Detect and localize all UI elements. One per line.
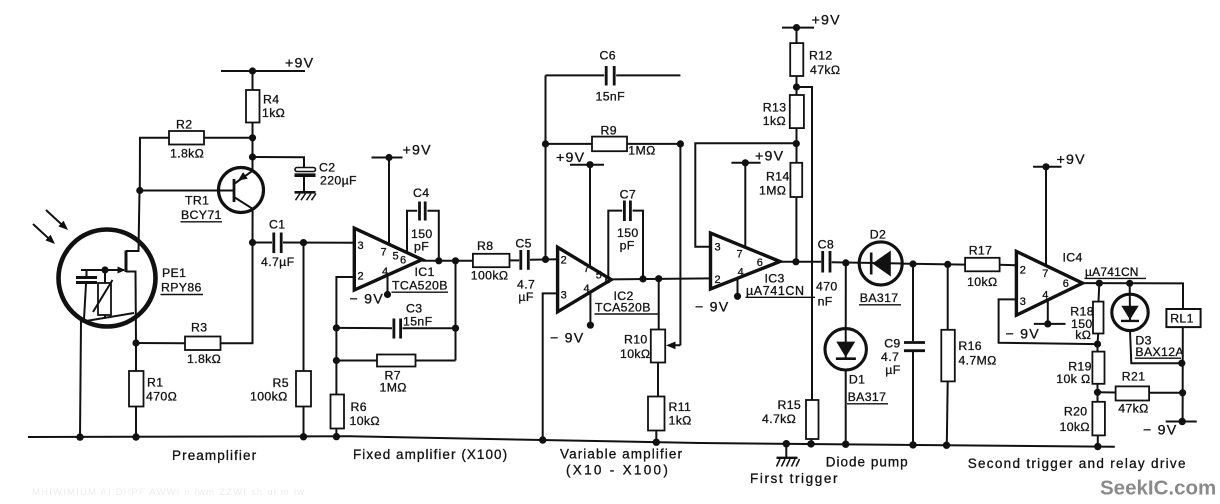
svg-text:Fixed amplifier (X100): Fixed amplifier (X100) bbox=[353, 447, 508, 462]
svg-text:1kΩ: 1kΩ bbox=[763, 114, 786, 128]
node C9 top junction bbox=[909, 260, 916, 267]
R10 wiper arrow bbox=[666, 144, 680, 349]
node D1 branch junction bbox=[842, 259, 849, 266]
svg-text:IC1: IC1 bbox=[415, 265, 435, 279]
+9V supply IC1 bbox=[372, 154, 403, 244]
node rail R5 bbox=[300, 433, 307, 440]
node R12-R13 junction bbox=[793, 83, 800, 90]
potentiometer R10 bbox=[651, 279, 665, 397]
node rail PE1 bbox=[76, 433, 83, 440]
+9V supply IC3 bbox=[731, 159, 760, 247]
svg-text:R9: R9 bbox=[601, 124, 617, 138]
svg-text:3: 3 bbox=[1020, 296, 1026, 308]
capacitor C8 bbox=[823, 251, 903, 273]
wire IC4 output bbox=[1083, 283, 1184, 309]
wire IC4 pin3 feedback loop bbox=[999, 299, 1098, 344]
node pin2-R7 junction bbox=[333, 357, 340, 364]
resistor R17 bbox=[965, 258, 1016, 272]
svg-text:BAX12A: BAX12A bbox=[1135, 345, 1184, 359]
svg-text:R16: R16 bbox=[958, 339, 982, 353]
svg-text:+9V: +9V bbox=[812, 13, 841, 29]
PE1 internal bottom node wire bbox=[80, 313, 134, 322]
svg-text:R11: R11 bbox=[669, 400, 692, 414]
capacitor C5 bbox=[521, 250, 546, 270]
svg-text:C5: C5 bbox=[515, 237, 531, 251]
resistor R7 bbox=[336, 355, 455, 367]
svg-text:2: 2 bbox=[715, 274, 721, 286]
svg-text:TCA520B: TCA520B bbox=[595, 301, 651, 315]
capacitor C3 bbox=[336, 319, 455, 339]
resistor R8 bbox=[473, 254, 519, 267]
resistor R6 bbox=[331, 395, 345, 438]
svg-text:R8: R8 bbox=[477, 239, 493, 253]
svg-text:4: 4 bbox=[1042, 290, 1048, 302]
svg-text:2: 2 bbox=[561, 255, 567, 267]
node rail R11 bbox=[653, 439, 660, 446]
svg-text:100kΩ: 100kΩ bbox=[250, 390, 288, 404]
node R10 top junction bbox=[655, 275, 662, 282]
svg-text:1.8kΩ: 1.8kΩ bbox=[187, 352, 221, 366]
svg-text:R3: R3 bbox=[191, 321, 207, 335]
resistor R5 bbox=[296, 243, 311, 437]
capacitor C9 bbox=[904, 264, 925, 445]
svg-text:3: 3 bbox=[358, 240, 364, 252]
resistor R21 bbox=[1098, 386, 1183, 400]
svg-text:1kΩ: 1kΩ bbox=[669, 414, 692, 428]
svg-text:First trigger: First trigger bbox=[750, 471, 839, 486]
node rail R6 bbox=[333, 433, 340, 440]
PE1 internal channel bar bbox=[125, 251, 128, 273]
svg-text:(X10 - X100): (X10 - X100) bbox=[566, 463, 670, 478]
svg-text:5: 5 bbox=[596, 270, 602, 282]
op-amp IC1 bbox=[354, 228, 422, 290]
photocell PE1 envelope circle bbox=[59, 230, 156, 327]
node R14 output junction bbox=[792, 258, 799, 265]
svg-text:BCY71: BCY71 bbox=[181, 208, 222, 222]
svg-text:TR1: TR1 bbox=[185, 194, 209, 208]
op-amp IC3 bbox=[711, 233, 781, 289]
node rail IC2 pin3 bbox=[539, 436, 546, 443]
transistor TR1 circle bbox=[219, 168, 264, 213]
node rail R16 bbox=[943, 442, 950, 449]
-9V pin4 IC2 bbox=[587, 292, 594, 329]
PE1 drain lead to TR1 base bbox=[126, 191, 140, 252]
svg-text:Variable amplifier: Variable amplifier bbox=[560, 447, 683, 462]
node R18 bottom junction bbox=[1094, 341, 1101, 348]
node R19 bottom junction bbox=[1094, 389, 1101, 396]
svg-text:Second trigger and relay drive: Second trigger and relay drive bbox=[968, 456, 1187, 471]
wire IC1 output bbox=[422, 260, 473, 262]
-9V pin4 IC3 bbox=[734, 278, 741, 300]
svg-text:4: 4 bbox=[584, 283, 590, 295]
resistor R15 bbox=[806, 400, 819, 444]
svg-text:R21: R21 bbox=[1122, 370, 1146, 384]
svg-text:10kΩ: 10kΩ bbox=[350, 414, 380, 428]
svg-text:R15: R15 bbox=[778, 398, 802, 412]
svg-text:100kΩ: 100kΩ bbox=[471, 269, 509, 283]
resistor R14 bbox=[790, 163, 802, 262]
resistor R4 bbox=[246, 71, 260, 157]
node C3 right junction bbox=[452, 325, 459, 332]
TR1 emitter lead with PNP arrow bbox=[234, 157, 253, 184]
svg-text:− 9V: − 9V bbox=[695, 300, 729, 316]
svg-text:3: 3 bbox=[715, 242, 721, 254]
svg-text:C9: C9 bbox=[884, 337, 900, 351]
node TR1 collector-top junction bbox=[249, 153, 256, 160]
svg-text:R20: R20 bbox=[1064, 405, 1088, 419]
svg-text:1.8kΩ: 1.8kΩ bbox=[170, 147, 204, 161]
svg-text:SeekIC.com: SeekIC.com bbox=[1100, 477, 1216, 500]
-9V terminal bottom right bbox=[1166, 418, 1197, 425]
svg-text:10kΩ: 10kΩ bbox=[1060, 420, 1090, 434]
svg-text:µA741CN: µA741CN bbox=[1085, 265, 1139, 279]
diode D1 bbox=[825, 263, 866, 445]
node R3 left junction bbox=[132, 339, 139, 346]
svg-text:2: 2 bbox=[358, 271, 364, 283]
wire pin3 to ground rail bbox=[543, 293, 558, 440]
svg-text:7: 7 bbox=[1042, 268, 1048, 280]
+9V rail top left bbox=[221, 67, 305, 74]
capacitor C2 electrolytic bbox=[253, 157, 316, 192]
light arrow 2 bbox=[33, 224, 55, 244]
svg-text:IC4: IC4 bbox=[1063, 251, 1083, 265]
ground symbol first trigger bbox=[777, 444, 800, 467]
svg-text:47kΩ: 47kΩ bbox=[810, 63, 840, 77]
diode D3 bbox=[1112, 283, 1182, 363]
resistor R12 bbox=[790, 28, 803, 95]
wire feedback right vertical bbox=[455, 261, 457, 361]
PE1 source lead down to R3 node bbox=[126, 272, 136, 344]
svg-text:Preamplifier: Preamplifier bbox=[172, 448, 257, 463]
svg-text:1MΩ: 1MΩ bbox=[628, 144, 655, 158]
svg-text:R2: R2 bbox=[176, 118, 192, 132]
svg-text:R12: R12 bbox=[809, 49, 833, 63]
svg-text:− 9V: − 9V bbox=[1006, 327, 1040, 343]
svg-text:4.7µF: 4.7µF bbox=[261, 255, 295, 269]
wire IC2 output to IC3 bbox=[611, 278, 710, 279]
node C4 output junction bbox=[435, 257, 442, 264]
svg-text:4.7MΩ: 4.7MΩ bbox=[958, 354, 996, 368]
svg-text:C2: C2 bbox=[319, 161, 335, 175]
op-amp IC4 bbox=[1016, 251, 1082, 315]
node R9 right junction bbox=[677, 140, 684, 147]
svg-text:C6: C6 bbox=[600, 49, 616, 63]
resistor R2 bbox=[140, 131, 253, 191]
PE1 internal gate arrow bbox=[105, 267, 126, 274]
svg-text:RL1: RL1 bbox=[1170, 312, 1194, 326]
svg-text:TCA520B: TCA520B bbox=[392, 279, 448, 293]
node D3 top junction bbox=[1126, 280, 1133, 287]
wire TR1 collector down to C1 node bbox=[252, 209, 254, 243]
svg-text:µF: µF bbox=[885, 363, 900, 377]
node C1 left junction bbox=[249, 239, 256, 246]
diode D2 bbox=[859, 242, 965, 285]
svg-text:BA317: BA317 bbox=[860, 291, 899, 305]
resistor R16 bbox=[941, 264, 955, 445]
resistor R11 bbox=[648, 397, 665, 443]
svg-text:R10: R10 bbox=[624, 333, 648, 347]
PE1 internal node junction bbox=[101, 266, 108, 273]
wire bottom common rail bbox=[28, 436, 1115, 447]
svg-text:5: 5 bbox=[393, 251, 399, 263]
svg-text:pF: pF bbox=[620, 239, 635, 253]
node rail D1 bbox=[842, 441, 849, 448]
node pin2-C3 junction bbox=[333, 324, 340, 331]
-9V pin4 IC4 bbox=[1034, 300, 1066, 328]
svg-text:R4: R4 bbox=[263, 93, 279, 107]
PE1 internal top node wire bbox=[81, 269, 124, 271]
svg-text:pF: pF bbox=[414, 240, 429, 254]
wire C5 to pin2 bbox=[546, 258, 558, 260]
TR1 base wire from node bbox=[140, 190, 235, 192]
node C7 output junction bbox=[639, 275, 646, 282]
svg-text:nF: nF bbox=[818, 295, 833, 309]
resistor R19 bbox=[1092, 344, 1104, 392]
svg-text:µF: µF bbox=[518, 290, 533, 304]
svg-text:R17: R17 bbox=[969, 244, 993, 258]
-9V pin4 IC1 bbox=[384, 275, 391, 298]
relay RL1 bbox=[1166, 309, 1200, 422]
svg-text:47kΩ: 47kΩ bbox=[1118, 402, 1148, 416]
svg-text:+9V: +9V bbox=[285, 56, 314, 72]
svg-text:− 9V: − 9V bbox=[1143, 423, 1177, 439]
wire feedback left vertical bbox=[545, 75, 547, 259]
svg-text:µA741CN: µA741CN bbox=[746, 284, 805, 298]
svg-text:+9V: +9V bbox=[755, 149, 784, 165]
node R2-R4 junction bbox=[249, 134, 256, 141]
node rail R1 bbox=[132, 433, 139, 440]
svg-text:220µF: 220µF bbox=[320, 174, 357, 188]
svg-text:D1: D1 bbox=[849, 373, 865, 387]
svg-text:15nF: 15nF bbox=[403, 315, 433, 329]
op-amp IC2 bbox=[558, 247, 612, 311]
svg-text:RPY86: RPY86 bbox=[161, 281, 202, 295]
svg-text:15nF: 15nF bbox=[596, 90, 626, 104]
svg-text:6: 6 bbox=[757, 257, 763, 269]
svg-text:470Ω: 470Ω bbox=[146, 390, 177, 404]
resistor R13 bbox=[790, 95, 804, 163]
PE1 internal photoresistive element bbox=[93, 270, 113, 318]
svg-text:7: 7 bbox=[584, 263, 590, 275]
resistor R9 bbox=[546, 137, 681, 152]
node R5 branch junction bbox=[300, 239, 307, 246]
svg-text:10kΩ: 10kΩ bbox=[620, 347, 650, 361]
svg-text:7: 7 bbox=[381, 247, 387, 259]
svg-text:R13: R13 bbox=[763, 101, 787, 115]
svg-text:R5: R5 bbox=[273, 376, 289, 390]
TR1 collector lead bbox=[234, 197, 253, 209]
svg-text:C3: C3 bbox=[406, 302, 422, 316]
svg-text:6: 6 bbox=[1063, 278, 1069, 290]
svg-text:R14: R14 bbox=[766, 170, 790, 184]
svg-text:7: 7 bbox=[737, 249, 743, 261]
node R9 left junction bbox=[542, 140, 549, 147]
node feedback output junction bbox=[452, 257, 459, 264]
svg-text:10kΩ: 10kΩ bbox=[967, 275, 997, 289]
node rail C9 bbox=[909, 441, 916, 448]
PE1 internal capacitor bbox=[76, 270, 97, 319]
+9V supply top right bbox=[782, 24, 814, 31]
svg-text:3: 3 bbox=[561, 289, 567, 301]
node pin2 input junction bbox=[542, 256, 549, 263]
node R13-R14 junction bbox=[793, 140, 800, 147]
svg-text:PE1: PE1 bbox=[162, 266, 186, 280]
svg-text:4: 4 bbox=[738, 267, 744, 279]
svg-text:BA317: BA317 bbox=[848, 390, 887, 404]
node rail R20 bbox=[1094, 443, 1101, 450]
svg-text:R1: R1 bbox=[147, 376, 163, 390]
light arrow 1 bbox=[46, 210, 68, 230]
node rail ground stub bbox=[783, 440, 790, 447]
svg-text:C4: C4 bbox=[413, 186, 429, 200]
+9V supply IC2 bbox=[570, 161, 604, 267]
svg-text:4.7kΩ: 4.7kΩ bbox=[762, 412, 796, 426]
svg-text:Diode pump: Diode pump bbox=[826, 455, 909, 470]
resistor R3 bbox=[136, 243, 253, 351]
TR1 base bar bbox=[233, 179, 236, 202]
capacitor C1 bbox=[253, 233, 355, 254]
resistor R20 bbox=[1092, 392, 1105, 446]
svg-text:R6: R6 bbox=[351, 400, 367, 414]
svg-text:C1: C1 bbox=[269, 218, 285, 232]
svg-text:4.7: 4.7 bbox=[881, 350, 899, 364]
svg-text:C8: C8 bbox=[818, 238, 834, 252]
svg-text:kΩ: kΩ bbox=[1075, 328, 1091, 342]
svg-text:1MΩ: 1MΩ bbox=[380, 381, 407, 395]
svg-text:470: 470 bbox=[816, 280, 838, 294]
svg-text:10k Ω: 10k Ω bbox=[1056, 372, 1090, 386]
node rail R15 bbox=[807, 440, 814, 447]
+9V supply IC4 bbox=[1033, 163, 1061, 266]
wire R12 node to R15 vertical bbox=[797, 87, 813, 400]
capacitor C4 feedback bbox=[407, 202, 439, 261]
resistor R1 bbox=[129, 343, 144, 437]
node R21 right junction bbox=[1179, 389, 1186, 396]
svg-text:2: 2 bbox=[1020, 265, 1026, 277]
node D3 bottom junction bbox=[1178, 360, 1185, 367]
node R16 top junction bbox=[944, 261, 951, 268]
svg-text:+9V: +9V bbox=[403, 143, 432, 159]
ground below C2 bbox=[295, 192, 317, 200]
svg-text:− 9V: − 9V bbox=[550, 331, 584, 347]
svg-text:MHIWIMIUM AI DIIPF AWWI n l: MHIWIMIUM AI DIIPF AWWI n lwm ZZWI sh ul… bbox=[32, 487, 305, 498]
svg-text:− 9V: − 9V bbox=[350, 292, 384, 308]
svg-text:1MΩ: 1MΩ bbox=[759, 184, 786, 198]
svg-text:1kΩ: 1kΩ bbox=[262, 106, 285, 120]
wire IC3 pin3 loop bbox=[695, 143, 796, 246]
capacitor C6 bbox=[546, 66, 681, 86]
node R18 top junction bbox=[1096, 280, 1103, 287]
PE1 cathode lead down to rail bbox=[80, 321, 81, 437]
resistor R18 bbox=[1093, 283, 1104, 344]
capacitor C7 feedback bbox=[608, 201, 643, 279]
svg-text:C7: C7 bbox=[620, 188, 636, 202]
svg-text:+9V: +9V bbox=[556, 150, 585, 166]
svg-text:6: 6 bbox=[400, 255, 406, 267]
svg-text:+9V: +9V bbox=[1057, 152, 1086, 168]
svg-text:D2: D2 bbox=[870, 228, 886, 242]
wire IC1 pin2 loop bbox=[336, 277, 354, 394]
node TR1 base junction bbox=[136, 187, 143, 194]
wire IC3 output bbox=[780, 261, 821, 263]
